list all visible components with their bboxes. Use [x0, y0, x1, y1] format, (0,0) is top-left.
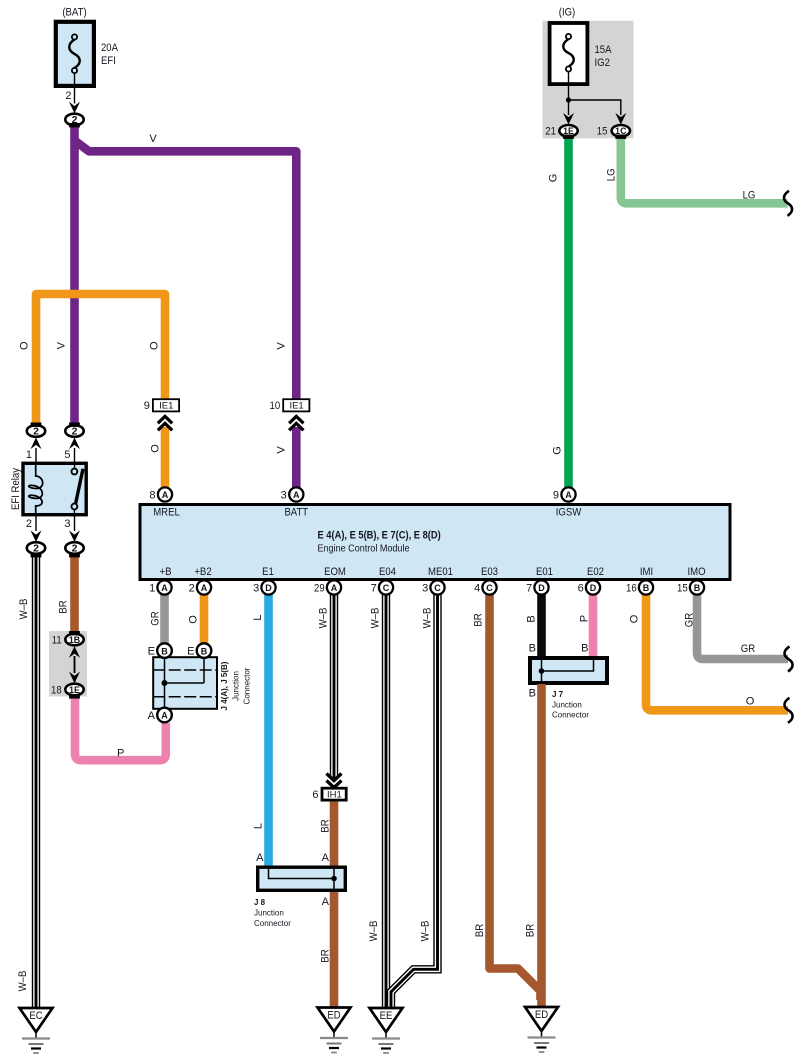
svg-text:A: A — [162, 490, 169, 500]
svg-text:Engine Control Module: Engine Control Module — [318, 543, 410, 554]
svg-text:15: 15 — [597, 126, 608, 138]
wire GR gray from +B — [160, 588, 169, 645]
connector oval 2 (to purple) — [65, 114, 83, 126]
svg-text:B: B — [694, 583, 701, 593]
svg-text:LG: LG — [606, 168, 618, 181]
svg-text:Junction: Junction — [254, 908, 284, 918]
svg-text:V: V — [276, 342, 288, 350]
label A brown pin — [322, 852, 330, 864]
svg-text:BR: BR — [320, 819, 332, 832]
relay coil — [29, 462, 43, 516]
svg-text:EFI Relay: EFI Relay — [10, 468, 22, 510]
wire G green IGSW — [564, 136, 573, 489]
svg-text:+B2: +B2 — [194, 566, 211, 578]
svg-text:EC: EC — [29, 1010, 42, 1022]
svg-text:A: A — [293, 490, 300, 500]
wire B black from E01 — [537, 588, 546, 658]
label A below J8 — [322, 896, 330, 908]
wire BR brown relay pin3 to 1B — [70, 554, 79, 634]
label LG vertical — [606, 168, 618, 181]
label V at BATT riser — [276, 342, 288, 350]
svg-text:W–B: W–B — [318, 608, 330, 629]
svg-text:1: 1 — [26, 449, 32, 461]
svg-text:L: L — [253, 823, 265, 829]
pin 3 label — [281, 490, 287, 502]
svg-text:A: A — [322, 852, 330, 864]
label G upper — [548, 174, 560, 183]
svg-text:16: 16 — [626, 583, 637, 595]
svg-text:D: D — [538, 583, 545, 593]
svg-text:Connector: Connector — [552, 710, 589, 720]
svg-text:E02: E02 — [587, 566, 604, 578]
J8 name label — [254, 897, 291, 928]
connector IE1 pin 10 — [283, 399, 309, 412]
label V left vertical — [56, 341, 68, 349]
wire V purple from IE1 10 to BATT — [292, 427, 301, 489]
fuse 20A EFI value — [101, 42, 119, 67]
arrow up below 1B — [69, 646, 80, 658]
J4 pin E(B) right — [197, 643, 212, 658]
label BR on E03 wire — [474, 924, 486, 937]
svg-text:2: 2 — [33, 426, 39, 438]
svg-text:B: B — [581, 643, 588, 655]
wire L blue from E1 — [264, 588, 273, 867]
svg-text:BR: BR — [474, 924, 486, 937]
svg-text:O: O — [150, 444, 162, 453]
connector ovals 2 below EFI relay — [27, 542, 45, 554]
svg-text:BR: BR — [320, 949, 332, 962]
J4 pin A(A) — [157, 708, 172, 723]
svg-text:W–B: W–B — [420, 921, 432, 942]
pin 21 label — [545, 126, 556, 138]
svg-text:IMI: IMI — [640, 566, 653, 578]
svg-text:P: P — [579, 615, 591, 622]
ground EC — [20, 1008, 53, 1053]
label O below +B2 — [188, 615, 200, 624]
svg-text:O: O — [149, 341, 161, 350]
svg-text:2: 2 — [65, 90, 71, 102]
arrow down into oval below pin3 — [69, 530, 80, 542]
svg-text:29: 29 — [314, 583, 325, 595]
arrow up into oval 2 left — [31, 438, 42, 450]
connector IH1 pin 6 — [322, 788, 346, 800]
svg-text:E1: E1 — [262, 566, 274, 578]
wire lead from fuse (BAT) pin 2 — [74, 73, 76, 103]
label V below IE1 10 — [276, 446, 288, 454]
lead pin2 — [35, 516, 37, 531]
label W-B on E04 wire — [368, 921, 380, 942]
chevron arrows below IE1 9 — [158, 416, 172, 430]
EFI Relay label — [10, 468, 22, 510]
pin circle BATT 3(A) — [289, 487, 303, 501]
wire lead to 1E — [568, 100, 570, 115]
svg-text:D: D — [265, 583, 272, 593]
ECM bottom pin names — [160, 566, 172, 578]
svg-text:B: B — [201, 646, 208, 656]
junction connector J4/J5 box — [153, 657, 217, 709]
svg-text:IG2: IG2 — [595, 57, 610, 69]
svg-text:10: 10 — [270, 400, 281, 412]
svg-text:O: O — [629, 614, 641, 623]
svg-text:J 8: J 8 — [254, 897, 265, 907]
ground ED (from J8) — [318, 1008, 351, 1053]
chevron arrows above IH1 — [327, 774, 342, 788]
label A blue pin — [256, 852, 264, 864]
break squiggle GR — [784, 647, 792, 672]
svg-text:3: 3 — [253, 583, 259, 595]
wire W-B from relay pin2 to EC ground — [32, 554, 40, 1010]
svg-text:5: 5 — [64, 449, 70, 461]
wire W-B from ME01 — [391, 588, 438, 1010]
wire O orange from IMI — [646, 588, 788, 710]
arrow into connector 1E — [563, 113, 574, 125]
pin 11 label — [52, 635, 62, 647]
label G lower — [552, 446, 564, 455]
pin 18 label — [51, 685, 62, 697]
connector oval 1C pin 15 — [612, 125, 630, 137]
fuse (IG) label — [559, 7, 576, 19]
svg-text:EOM: EOM — [324, 566, 346, 578]
wire O orange from IE1 9 to MREL — [161, 427, 170, 489]
arrow up into oval 2 right — [69, 438, 80, 450]
label GR below IMO — [684, 613, 696, 627]
svg-text:8: 8 — [149, 490, 155, 502]
svg-text:IE1: IE1 — [289, 401, 303, 412]
label P below E02 — [579, 615, 591, 622]
pin 9 label — [553, 490, 559, 502]
svg-text:21: 21 — [545, 126, 556, 138]
svg-text:Junction: Junction — [552, 700, 582, 710]
ECM pin name BATT — [284, 507, 308, 519]
label O left — [19, 341, 31, 350]
label BR below IH1 — [320, 819, 332, 832]
wire lead from fuse (IG) — [568, 72, 570, 100]
wire branch to 1C — [569, 100, 621, 115]
pin circle IGSW 9(A) — [561, 487, 575, 501]
J7 internal wires with node — [539, 658, 594, 682]
fuse IG2 15A (IG) body — [550, 23, 588, 84]
svg-text:3: 3 — [64, 518, 70, 530]
ECM bottom pin circles — [157, 580, 171, 594]
label W-B below E04 — [370, 608, 382, 629]
fuse 15A IG2 value — [595, 44, 613, 69]
svg-text:7: 7 — [371, 583, 377, 595]
svg-text:Connector: Connector — [254, 918, 291, 928]
svg-text:V: V — [56, 341, 68, 349]
arrow down above 1E — [69, 672, 80, 684]
svg-text:B: B — [643, 583, 650, 593]
svg-text:B: B — [529, 688, 536, 700]
svg-text:Connector: Connector — [242, 667, 252, 704]
svg-text:V: V — [276, 446, 288, 454]
pin 6 label — [312, 789, 318, 801]
svg-text:3: 3 — [281, 490, 287, 502]
svg-text:2: 2 — [33, 543, 39, 555]
label B below E01 — [526, 615, 538, 622]
wire V purple from battery fuse — [70, 124, 79, 427]
pin 9 label — [144, 400, 150, 412]
label GR horizontal — [741, 643, 755, 655]
label BR — [58, 600, 70, 613]
svg-text:E01: E01 — [536, 566, 553, 578]
wire O orange from +B2 — [200, 588, 209, 645]
connector IE1 pin 9 — [153, 399, 179, 412]
label P — [117, 748, 124, 760]
svg-text:Junction: Junction — [231, 671, 241, 701]
svg-text:W–B: W–B — [368, 921, 380, 942]
svg-text:ME01: ME01 — [428, 566, 453, 578]
svg-text:A: A — [161, 711, 168, 721]
svg-text:O: O — [19, 341, 31, 350]
svg-text:E: E — [148, 646, 155, 658]
svg-text:2: 2 — [189, 583, 195, 595]
svg-text:D: D — [590, 583, 597, 593]
ground ED (from J7) — [525, 1007, 558, 1052]
wire LG light green — [621, 136, 788, 203]
svg-text:ED: ED — [535, 1009, 548, 1021]
J8 internal wires with node — [269, 868, 337, 890]
svg-text:A: A — [161, 583, 168, 593]
break squiggle O — [784, 698, 792, 723]
junction node at IG fuse output — [566, 97, 571, 102]
svg-text:BR: BR — [473, 613, 485, 626]
junction connector J7 box — [530, 658, 607, 683]
svg-text:BATT: BATT — [284, 507, 308, 519]
pin 8 label — [149, 490, 155, 502]
label LG horizontal — [743, 189, 756, 201]
svg-text:1: 1 — [149, 583, 155, 595]
svg-text:GR: GR — [684, 613, 696, 627]
wire V purple branch to BATT — [75, 141, 297, 401]
label E right — [187, 646, 194, 658]
svg-text:IE1: IE1 — [159, 401, 173, 412]
svg-text:1B: 1B — [69, 635, 80, 645]
fuse EFI 20A (BAT) body — [56, 22, 94, 86]
svg-text:11: 11 — [52, 635, 62, 647]
ECM pin name MREL — [153, 507, 180, 519]
svg-text:IGSW: IGSW — [556, 507, 582, 519]
svg-text:6: 6 — [312, 789, 318, 801]
connector ovals 2 above EFI relay — [27, 425, 45, 437]
J4 internal bus dashed upper — [153, 669, 217, 671]
J4/J5 name label — [219, 661, 252, 710]
svg-text:4: 4 — [474, 583, 480, 595]
svg-text:L: L — [252, 614, 264, 620]
label GR below +B — [150, 611, 162, 625]
J7 name label — [552, 689, 589, 720]
wire O orange MREL loop — [36, 294, 165, 427]
lead pin5 — [74, 448, 76, 463]
svg-text:2: 2 — [26, 518, 32, 530]
svg-text:P: P — [117, 748, 124, 760]
svg-text:W–B: W–B — [18, 599, 30, 620]
svg-text:W–B: W–B — [17, 971, 29, 992]
EFI relay box — [23, 463, 86, 514]
svg-text:9: 9 — [553, 490, 559, 502]
pin 1 label — [26, 449, 32, 461]
wire P pink from E02 — [589, 588, 598, 658]
label L above J8 — [253, 823, 265, 829]
wire P pink from 1E to J4 A — [75, 697, 166, 760]
svg-text:A: A — [256, 852, 264, 864]
ECM pin name IGSW — [556, 507, 582, 519]
pin circle MREL 8(A) — [158, 487, 172, 501]
svg-text:(BAT): (BAT) — [62, 7, 86, 19]
wire BR brown from J7 to ED ground — [537, 684, 546, 1009]
svg-text:B: B — [529, 643, 536, 655]
svg-text:J 4(A), J 5(B): J 4(A), J 5(B) — [219, 661, 229, 710]
label W-B below ME01 — [422, 608, 434, 629]
svg-text:9: 9 — [144, 400, 150, 412]
connector oval 1E pin 21 — [559, 125, 577, 137]
J4 internal wire left — [164, 657, 166, 709]
link line between 1B and 1E — [74, 656, 76, 673]
wire BR brown from E03 — [490, 588, 541, 1000]
svg-text:A: A — [565, 490, 572, 500]
wire BR brown from IH1 through J8 to ED ground — [330, 800, 339, 1009]
pin 10 label — [270, 400, 281, 412]
svg-text:V: V — [149, 133, 157, 145]
lead pin3 — [74, 516, 76, 531]
svg-text:B: B — [161, 646, 168, 656]
pin 2 label — [26, 518, 32, 530]
label O horizontal — [746, 696, 755, 708]
arrow down into oval below pin2 — [31, 530, 42, 542]
svg-text:A: A — [331, 583, 338, 593]
svg-text:6: 6 — [578, 583, 584, 595]
svg-text:MREL: MREL — [153, 507, 180, 519]
label L below E1 — [252, 614, 264, 620]
break squiggle LG — [784, 191, 792, 216]
svg-text:A: A — [322, 896, 330, 908]
svg-text:3: 3 — [422, 583, 428, 595]
J4 internal link with node — [162, 680, 205, 686]
svg-text:A: A — [201, 583, 208, 593]
shaded background 1B/1E connector area — [49, 631, 87, 697]
label B below J7 — [529, 688, 536, 700]
label W-B on ME01 wire — [420, 921, 432, 942]
svg-text:E03: E03 — [481, 566, 498, 578]
svg-text:A: A — [148, 710, 156, 722]
label W-B left upper — [18, 599, 30, 620]
label BR below E03 — [473, 613, 485, 626]
wire GR gray from IMO — [697, 588, 788, 659]
svg-text:C: C — [434, 583, 441, 593]
pin 5 label — [64, 449, 70, 461]
svg-text:IH1: IH1 — [327, 790, 342, 801]
svg-text:ED: ED — [327, 1010, 340, 1022]
svg-text:G: G — [552, 446, 564, 455]
arrow into connector 1C — [615, 113, 626, 125]
wire W-B from E04 — [382, 588, 390, 1010]
svg-text:EE: EE — [380, 1010, 393, 1022]
junction connector J8 box — [258, 867, 346, 890]
label W-B below EOM — [318, 608, 330, 629]
svg-text:2: 2 — [72, 426, 78, 438]
label A — [148, 710, 156, 722]
label O below IMI — [629, 614, 641, 623]
J4 internal wire right — [203, 657, 205, 683]
lead pin1 — [35, 448, 37, 463]
svg-text:O: O — [188, 615, 200, 624]
pin 15 label — [597, 126, 608, 138]
svg-text:E 4(A), E 5(B), E 7(C), E 8(D): E 4(A), E 5(B), E 7(C), E 8(D) — [318, 530, 441, 542]
svg-text:IMO: IMO — [687, 566, 705, 578]
svg-text:E: E — [187, 646, 194, 658]
wire entry tabs at ovals — [31, 123, 627, 699]
labels B at J7 top — [529, 643, 536, 655]
ECM box E4/E5/E7/E8 Engine Control Module — [140, 505, 730, 580]
label BR below J7 — [525, 924, 537, 937]
svg-text:GR: GR — [150, 611, 162, 625]
svg-text:15A: 15A — [595, 44, 613, 56]
label O below IE1 9 — [150, 444, 162, 453]
svg-text:W–B: W–B — [370, 608, 382, 629]
svg-text:J 7: J 7 — [552, 689, 563, 699]
chevron arrows below IE1 10 — [289, 416, 303, 430]
label E left — [148, 646, 155, 658]
svg-text:B: B — [526, 615, 538, 622]
pin 3 label — [64, 518, 70, 530]
arrow into connector 2 — [69, 102, 80, 114]
svg-text:2: 2 — [72, 543, 78, 555]
svg-text:E04: E04 — [379, 566, 396, 578]
label V horizontal — [149, 133, 157, 145]
relay switch — [72, 462, 84, 516]
svg-text:BR: BR — [58, 600, 70, 613]
pin 2 label — [65, 90, 71, 102]
svg-text:C: C — [383, 583, 390, 593]
svg-text:7: 7 — [526, 583, 532, 595]
label BR below J8 — [320, 949, 332, 962]
svg-text:EFI: EFI — [101, 55, 116, 67]
svg-text:+B: +B — [160, 566, 172, 578]
svg-text:C: C — [486, 583, 493, 593]
svg-text:18: 18 — [51, 685, 62, 697]
svg-text:LG: LG — [743, 189, 756, 201]
wire W-B from EOM — [330, 588, 338, 778]
label O right — [149, 341, 161, 350]
fuse (BAT) label — [62, 7, 86, 19]
label W-B left lower — [17, 971, 29, 992]
svg-text:BR: BR — [525, 924, 537, 937]
ground EE — [370, 1008, 403, 1053]
svg-text:O: O — [746, 696, 755, 708]
ECM title — [318, 530, 441, 555]
svg-text:G: G — [548, 174, 560, 183]
shaded background (IG) fuse area — [543, 21, 634, 139]
svg-text:W–B: W–B — [422, 608, 434, 629]
svg-text:1E: 1E — [69, 685, 80, 695]
J4 internal bus dashed lower — [153, 696, 217, 698]
svg-text:20A: 20A — [101, 42, 119, 54]
J4 pin E(B) left — [157, 643, 172, 658]
connector oval 1B pin 11 — [65, 634, 83, 646]
svg-text:15: 15 — [677, 583, 688, 595]
svg-text:(IG): (IG) — [559, 7, 576, 19]
connector oval 1E pin 18 — [65, 684, 83, 696]
svg-text:GR: GR — [741, 643, 755, 655]
